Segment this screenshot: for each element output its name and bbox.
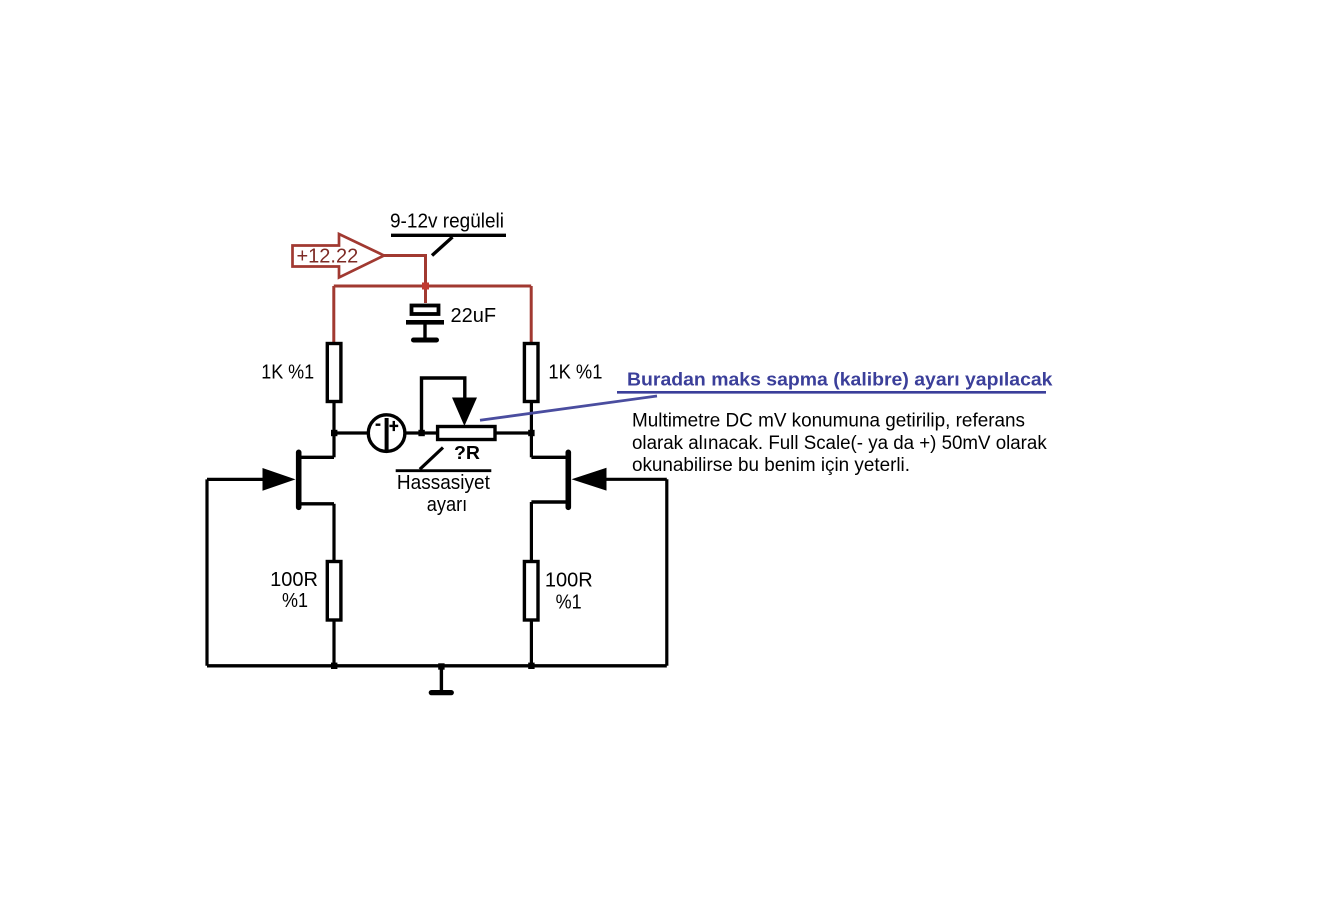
svg-text:okunabilirse bu benim için yet: okunabilirse bu benim için yeterli. [632,455,910,476]
transistor left [207,452,334,507]
potentiometer ?R wiper arrow [452,398,477,427]
wire left gate feedback [205,479,208,665]
wire right R 100R to rail [530,620,533,666]
annotation paragraph [632,411,1047,476]
svg-text:9-12v regüleli: 9-12v regüleli [390,211,504,233]
wire red from flag tip to corner [384,256,426,287]
svg-text:%1: %1 [556,592,582,614]
transistor right [531,452,666,507]
wire current source left lead [334,431,368,434]
wire left from R 1K to current-source node [332,402,335,458]
label ?R [454,443,480,463]
resistor 100R %1 left [270,562,341,621]
ground [431,666,451,693]
svg-text:Hassasiyet: Hassasiyet [397,472,490,494]
wire right source to R 100R [530,502,533,562]
capacitor 22uF [406,305,496,338]
node wiper loop tap [418,430,424,436]
label 9-12v regüleli [390,211,506,256]
ground capacitor [414,338,437,343]
svg-text:1K %1: 1K %1 [261,361,314,383]
wire left R 100R to rail [332,620,335,666]
node rail right [528,663,534,669]
wire bottom rail [207,664,667,667]
node supply junction [422,283,429,290]
wire red stub to capacitor [424,286,427,303]
wire left source to R 100R [332,504,335,562]
resistor 100R %1 right [524,562,592,621]
svg-text:1K %1: 1K %1 [548,361,602,383]
node right rail [528,430,534,436]
wire right from R 1K to transistor drain [530,402,533,458]
wire current source right lead [405,431,438,434]
svg-text:Multimetre DC mV konumuna geti: Multimetre DC mV konumuna getirilip, ref… [632,411,1025,432]
resistor 1K %1 left [261,344,341,402]
wire red right drop to R 1K right [530,286,533,344]
resistor 1K %1 right [524,344,602,402]
wire pot right lead [495,431,531,434]
annotation leader blue [480,396,657,420]
wire wiper loop [422,378,465,433]
node ground tap [438,663,444,669]
wire red supply bus horizontal [334,285,531,288]
current source [368,415,405,452]
power flag +12.22 [293,234,385,278]
wire red left drop to R 1K left [332,286,335,344]
wire right gate feedback [665,479,668,666]
annotation heading blue [617,369,1053,393]
svg-text:+12.22: +12.22 [297,246,359,268]
svg-text:%1: %1 [282,590,308,612]
svg-text:?R: ?R [454,443,480,463]
svg-text:22uF: 22uF [451,305,497,327]
potentiometer ?R body [438,427,495,440]
svg-text:ayarı: ayarı [427,494,468,516]
node rail left [331,663,337,669]
svg-text:Buradan maks sapma (kalibre) a: Buradan maks sapma (kalibre) ayarı yapıl… [627,369,1053,390]
svg-text:100R: 100R [545,570,593,592]
node left rail / current source [331,430,337,436]
svg-text:olarak alınacak. Full Scale(-: olarak alınacak. Full Scale(- ya da +) 5… [632,433,1047,454]
svg-text:100R: 100R [270,569,318,591]
label Hassasiyet ayarı [396,448,492,517]
